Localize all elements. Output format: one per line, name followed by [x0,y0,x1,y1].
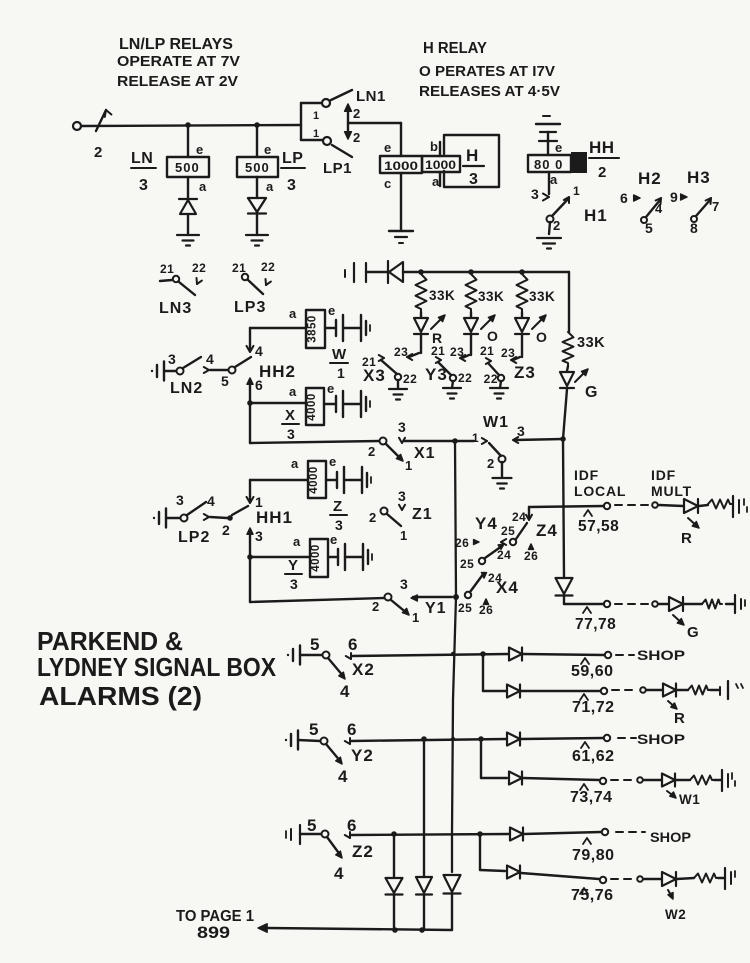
contact Z2 battery [285,831,287,838]
relay outline H/3 box [444,135,499,187]
svg-text:RELEASE AT 2V: RELEASE AT 2V [117,74,238,90]
svg-text:X1: X1 [414,445,436,462]
svg-text:MULT: MULT [651,483,692,499]
contact Y2 battery [285,739,287,741]
svg-text:3: 3 [168,351,176,367]
wire H coil to ground [400,173,402,230]
lamp LED G [567,366,568,371]
wire X1 to W1 [404,440,474,442]
svg-text:33K: 33K [429,288,455,303]
svg-text:1: 1 [400,528,408,543]
contact LP1 [323,137,331,145]
diode bus X [444,875,461,892]
relay coil Y 4000 [310,539,328,577]
svg-text:22: 22 [484,372,498,386]
svg-text:G: G [687,624,699,641]
svg-text:e: e [329,454,337,469]
svg-text:Y1: Y1 [425,600,447,617]
svg-text:e: e [328,303,336,318]
node Y2 bus [451,737,455,741]
svg-text:22: 22 [192,261,206,275]
node X coil junction [247,400,253,406]
contact Z2 [322,831,329,838]
svg-text:e: e [330,532,338,547]
svg-text:5: 5 [307,816,317,835]
svg-text:22: 22 [261,260,275,274]
diode row 75,76 [507,866,520,879]
battery row 73,74 [714,779,721,781]
svg-text:6: 6 [348,635,358,654]
svg-text:HH1: HH1 [256,508,293,527]
svg-text:Y4: Y4 [475,514,498,533]
node bus top [452,438,458,444]
svg-text:HH: HH [589,138,615,157]
svg-text:W: W [332,346,347,363]
wire to H coil [348,122,401,124]
battery row 75,76 [718,877,724,879]
svg-text:1: 1 [573,184,580,198]
svg-text:e: e [327,381,335,396]
svg-text:5: 5 [310,635,320,654]
svg-text:1: 1 [337,365,345,381]
svg-text:3: 3 [335,517,343,533]
wire branch 71,72 [482,654,484,691]
svg-text:X: X [285,407,295,424]
battery feed lamp bank [344,270,346,277]
svg-text:25: 25 [460,557,474,571]
node G branch [560,436,566,442]
node X2 bus [451,652,455,656]
contact LP2 [181,515,188,522]
svg-text:IDF: IDF [651,467,676,483]
resistor row 75,76 [677,878,694,879]
contact X1 [380,438,387,445]
wire bottom bus [267,928,452,930]
contact HH1 pole 3 [247,528,253,534]
arrow to page 1 [258,924,267,932]
svg-text:H3: H3 [687,168,711,187]
contact X2 battery [287,654,289,656]
svg-text:H: H [466,146,478,165]
relay coil X 4000 [306,388,324,425]
svg-text:LN3: LN3 [159,300,192,317]
svg-text:33K: 33K [478,289,504,304]
svg-text:4000: 4000 [306,393,318,421]
svg-text:3: 3 [398,419,406,435]
svg-text:3: 3 [469,171,478,188]
svg-text:1: 1 [405,458,413,473]
svg-text:23: 23 [394,345,408,359]
svg-text:3: 3 [176,492,184,508]
relay coil LP 500 [256,125,258,157]
svg-text:1000: 1000 [384,159,418,173]
relay coil HH 800 [528,155,571,172]
svg-text:24: 24 [512,510,526,524]
contact LN2 [177,368,184,375]
diode row 59,60 [509,648,522,661]
resistor 33K G [563,332,574,366]
svg-text:7: 7 [712,199,720,214]
LED R mult [684,499,698,513]
lamp LED R [420,312,422,317]
svg-text:3850: 3850 [307,315,319,343]
svg-text:3: 3 [139,177,148,194]
svg-text:W1: W1 [483,414,509,431]
svg-text:LP: LP [282,150,303,167]
svg-text:6: 6 [347,816,357,835]
ground H coil [389,230,413,232]
svg-text:a: a [550,172,558,187]
svg-text:1: 1 [472,431,479,445]
battery row 77,78 [726,603,734,605]
svg-text:75,76: 75,76 [571,887,614,904]
svg-text:73,74: 73,74 [570,789,613,806]
svg-text:33K: 33K [529,289,555,304]
svg-text:500: 500 [175,160,200,175]
wire W1 to G branch [515,439,563,440]
svg-text:3: 3 [400,576,408,592]
svg-text:2: 2 [222,522,230,538]
lamp LED O1 [470,312,472,317]
wire right branch [568,272,570,332]
svg-text:G: G [585,384,598,401]
svg-text:a: a [199,179,207,194]
svg-text:4: 4 [334,864,344,883]
svg-text:Z: Z [333,498,342,515]
contact LN2 battery [151,370,153,372]
svg-text:LYDNEY SIGNAL BOX: LYDNEY SIGNAL BOX [37,652,277,682]
svg-text:W1: W1 [679,792,700,807]
svg-text:26: 26 [524,549,538,563]
svg-text:e: e [384,140,392,155]
contact Z4 pole 24 [528,507,530,517]
svg-text:O: O [536,329,547,345]
transfer arrow 2-2 [347,108,349,135]
resistor row 71,72 [677,689,688,691]
wire row 57,58 [529,506,604,507]
svg-text:8: 8 [690,220,698,236]
wire branch 75,76 [479,834,481,870]
svg-text:a: a [289,306,297,321]
svg-text:3: 3 [517,423,525,439]
svg-text:LN: LN [131,150,153,167]
relay coil W 3850 [306,310,325,348]
contact LN1 [322,99,330,107]
svg-text:Z3: Z3 [514,363,536,382]
contact Z4 [510,539,516,545]
contact H1 [548,172,550,194]
svg-text:1: 1 [313,128,320,140]
svg-text:3: 3 [255,528,263,544]
svg-text:22: 22 [403,372,417,386]
wire Y row to Y1 [249,557,251,602]
svg-text:25: 25 [458,601,472,615]
svg-text:9: 9 [670,189,678,205]
node Z2 branch [477,831,483,837]
svg-text:21: 21 [480,344,494,358]
svg-text:6: 6 [347,720,357,739]
diode row 71,72 [507,685,520,698]
svg-text:22: 22 [458,371,472,385]
svg-text:4: 4 [340,682,350,701]
wire a stub [439,172,441,186]
terminal 57,58 [584,510,592,516]
svg-text:Y3: Y3 [425,365,448,384]
svg-text:LN1: LN1 [356,88,386,105]
svg-text:59,60: 59,60 [571,663,614,680]
wire branch 73,74 [480,739,482,778]
node Y1 bus [453,594,459,600]
wire lamp bus [403,271,569,273]
svg-text:1000: 1000 [425,160,456,172]
relay coil Z 4000 [308,461,326,498]
contact HH2 [229,367,236,374]
capacitor to ground above HH [543,115,550,117]
svg-text:25: 25 [501,524,515,538]
svg-text:3: 3 [287,426,295,442]
node LP junction [254,122,260,128]
resistor 33K O2 [517,274,528,312]
svg-text:OPERATE AT 7V: OPERATE AT 7V [117,54,240,70]
svg-text:Z2: Z2 [352,842,374,861]
svg-text:71,72: 71,72 [572,699,615,716]
diode column Z [393,834,395,877]
svg-text:LN/LP RELAYS: LN/LP RELAYS [119,36,233,53]
svg-text:2: 2 [553,218,561,233]
svg-text:57,58: 57,58 [578,518,619,535]
contact Y4 arrow [501,539,506,542]
svg-text:4000: 4000 [308,466,320,494]
svg-text:61,62: 61,62 [572,748,615,765]
diode row 61,62 [507,733,520,746]
ground LN [177,234,199,236]
relay coil H 1000/1000 [380,156,422,173]
svg-text:2: 2 [94,144,103,161]
svg-text:4: 4 [655,201,663,216]
svg-text:R: R [674,710,685,727]
resistor row 57,58 [699,505,708,506]
wire to X coil [250,402,306,404]
contact Z1 [381,508,388,515]
svg-text:2: 2 [368,444,376,459]
svg-text:Y2: Y2 [351,746,374,765]
wire X row to X1 [249,403,251,443]
resistor row 77,78 [684,603,702,605]
svg-text:X3: X3 [363,366,386,385]
diode across LN coil [187,177,189,198]
contact Y2 [321,738,328,745]
svg-text:Z4: Z4 [536,521,558,540]
svg-text:SHOP: SHOP [637,731,685,747]
resistor 33K O1 [466,274,477,312]
svg-text:O PERATES AT I7V: O PERATES AT I7V [419,64,555,80]
lamp LED O2 [521,312,523,317]
svg-text:3: 3 [287,177,296,194]
svg-text:80 0: 80 0 [534,157,563,172]
svg-text:4: 4 [207,493,215,509]
svg-text:LP3: LP3 [234,299,266,316]
svg-text:2: 2 [372,599,380,614]
svg-text:a: a [266,179,274,194]
diode lamp bank [387,261,389,283]
wire vertical bus [452,441,456,872]
svg-text:Z1: Z1 [412,506,433,523]
cap+battery Z [326,479,337,481]
svg-text:1: 1 [255,494,263,510]
svg-text:HH2: HH2 [259,362,296,381]
node lamp O1 [468,269,474,275]
svg-text:SHOP: SHOP [650,829,691,845]
cap+battery W [325,327,336,329]
terminal input [73,122,81,130]
node Y coil junction [247,554,253,560]
svg-text:4: 4 [206,351,214,367]
svg-text:5: 5 [309,720,319,739]
svg-text:X2: X2 [352,660,375,679]
svg-text:6: 6 [255,377,263,393]
svg-text:3: 3 [290,576,298,592]
contact HH1 [227,515,233,521]
diode row 73,74 [509,772,522,785]
svg-text:4: 4 [255,343,263,359]
svg-text:33K: 33K [577,335,605,351]
diode row 79,80 [510,828,523,841]
svg-text:a: a [289,384,297,399]
node lamp R [418,269,424,275]
node X2 branch [480,651,486,657]
svg-text:1: 1 [313,110,320,122]
svg-text:2: 2 [353,106,361,121]
battery row 57,58 [732,496,734,517]
svg-text:3: 3 [398,488,406,504]
svg-text:5: 5 [645,220,653,236]
svg-text:500: 500 [245,160,270,175]
cap+battery Y [328,556,338,558]
contact bracket LN1/LP1 [300,103,302,140]
svg-text:LP2: LP2 [178,529,210,546]
svg-text:SHOP: SHOP [637,647,685,663]
svg-text:O: O [487,328,498,344]
svg-text:24: 24 [497,548,511,562]
svg-text:RELEASES AT 4·5V: RELEASES AT 4·5V [419,84,560,100]
contact X4 upper [479,558,485,564]
svg-text:b: b [430,139,438,154]
svg-text:ALARMS (2): ALARMS (2) [39,681,202,711]
svg-text:H1: H1 [584,206,608,225]
contact HH1 pole 1 [249,480,251,500]
svg-text:e: e [264,142,272,157]
contact LP2 battery [153,517,155,519]
svg-text:a: a [291,456,299,471]
svg-text:4000: 4000 [310,544,322,572]
svg-text:3: 3 [531,186,539,202]
node 1/2 tick [96,110,106,131]
svg-text:c: c [384,176,392,191]
svg-text:2: 2 [487,456,495,471]
contact HH2 pole 4 [249,328,251,349]
svg-text:2: 2 [353,130,361,145]
svg-text:H RELAY: H RELAY [423,40,487,57]
contact Y1 [385,594,392,601]
resistor 33K R [416,274,427,312]
svg-text:LOCAL: LOCAL [574,483,626,499]
svg-text:23: 23 [450,345,464,359]
relay coil LN 500 [187,125,189,157]
node Z2 col [391,831,397,837]
ground LP [246,234,268,236]
resistor row 73,74 [676,779,690,781]
wire b stub [439,142,441,156]
cap+battery X [324,403,336,405]
svg-text:e: e [555,140,563,155]
battery row 71,72 [710,689,719,691]
svg-text:26: 26 [455,536,469,550]
svg-text:e: e [196,142,204,157]
wire main feed [81,125,301,126]
svg-text:6: 6 [620,190,628,206]
contact X2 [323,652,330,659]
wire to W coil [250,327,306,329]
contact X4 lower [470,573,484,592]
node Y2 col [421,736,427,742]
wire row 77,78 [564,603,604,605]
svg-text:5: 5 [221,373,229,389]
diode to 77,78 [563,440,564,577]
svg-text:77,78: 77,78 [575,616,616,633]
node lamp O2 [519,269,525,275]
node LN junction [185,122,191,128]
wire to Z coil [250,479,308,481]
contact HH2 pole 6 [247,378,253,384]
LED G mult [669,597,683,611]
diode column Y [423,739,425,877]
svg-text:2: 2 [369,510,377,525]
LED W2 shop [662,872,676,886]
diode across LP coil [256,177,258,198]
svg-text:a: a [293,534,301,549]
svg-text:X4: X4 [496,578,519,597]
svg-text:899: 899 [197,923,230,942]
svg-text:2: 2 [598,164,606,181]
svg-text:4: 4 [338,767,348,786]
svg-text:79,80: 79,80 [572,847,615,864]
LED W1 shop [662,774,675,787]
svg-text:21: 21 [431,344,445,358]
svg-text:W2: W2 [665,907,686,922]
node Y2 branch [478,736,484,742]
svg-text:Y: Y [288,557,298,574]
svg-text:H2: H2 [638,169,662,188]
svg-text:23: 23 [501,346,515,360]
svg-text:IDF: IDF [574,467,599,483]
LED R shop [663,684,676,697]
svg-text:21: 21 [160,262,174,276]
svg-text:LN2: LN2 [170,380,203,397]
svg-text:1: 1 [412,610,420,625]
svg-text:26: 26 [479,603,493,617]
terminal 77,78 [583,607,591,613]
svg-text:R: R [681,530,692,547]
wire to W1 node [563,389,567,439]
wire to Y coil [250,556,310,558]
svg-text:LP1: LP1 [323,160,352,177]
